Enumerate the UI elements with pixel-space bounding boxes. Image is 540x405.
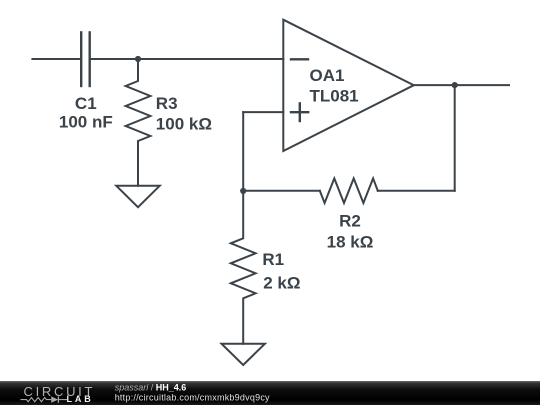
node A junction dot [135,56,141,62]
svg-text:2 kΩ: 2 kΩ [263,274,300,293]
resistor R3 [126,59,151,186]
svg-text:C1: C1 [75,94,97,113]
resistor R2 [320,178,378,203]
op-amp U1 triangle [283,20,414,151]
wire output node down [454,85,456,191]
svg-text:TL081: TL081 [310,87,359,106]
wire feedback left segment [243,190,320,192]
svg-text:OA1: OA1 [310,66,345,85]
wire input left segment [32,58,80,60]
svg-text:LAB: LAB [67,394,94,404]
svg-text:R2: R2 [339,212,361,231]
wire output [414,84,509,86]
svg-text:R1: R1 [262,250,284,269]
svg-text:spassari / HH_4.6: spassari / HH_4.6 [115,383,187,393]
logo wire to LAB [58,399,67,401]
op-amp plus sign [291,103,308,121]
wire node A to op-amp inverting input [138,58,283,60]
node B junction dot [240,188,246,194]
capacitor C1 [81,32,90,86]
wire feedback right segment [378,190,455,192]
wire C1 to node A [91,58,138,60]
wire node B up [242,112,244,191]
svg-text:R3: R3 [156,94,178,113]
logo diode [51,396,58,402]
svg-text:100 kΩ: 100 kΩ [156,115,212,134]
op-amp minus sign [291,58,308,60]
svg-text:http://circuitlab.com/cmxmkb9d: http://circuitlab.com/cmxmkb9dvq9cy [115,393,270,403]
svg-text:100 nF: 100 nF [59,113,113,132]
ground (R1) [222,344,265,365]
resistor R1 [231,191,256,344]
svg-text:18 kΩ: 18 kΩ [327,233,374,252]
wire to op-amp non-inverting input [243,111,283,113]
ground (R3) [116,186,159,207]
logo resistor zigzag [21,398,52,402]
output node junction dot [452,82,458,88]
